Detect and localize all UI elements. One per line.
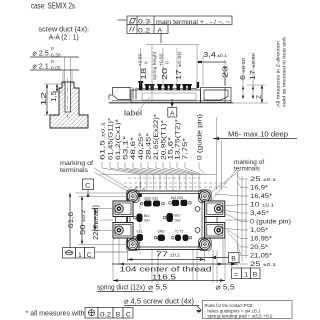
svg-text:-0.05: -0.05	[49, 65, 60, 71]
svg-text:=: =	[234, 272, 238, 279]
svg-text:0: 0	[51, 46, 54, 52]
svg-text:* all measures with: * all measures with	[26, 309, 85, 318]
svg-text:0 (guide pin): 0 (guide pin)	[250, 219, 291, 226]
svg-text:61,5 ±0.1: 61,5 ±0.1	[100, 122, 107, 160]
svg-text:20: 20	[160, 68, 169, 80]
svg-text:+0.50: +0.50	[159, 53, 165, 66]
svg-text:spring height: spring height	[152, 51, 158, 80]
svg-text:0 (guide pin): 0 (guide pin)	[197, 114, 204, 160]
svg-text:⌀ 4,5 screw duct (4x): ⌀ 4,5 screw duct (4x)	[124, 297, 194, 306]
svg-text:C: C	[85, 182, 90, 189]
svg-text:marking of: marking of	[60, 160, 93, 167]
svg-text:3(x2) G22: 3(x2) G22	[144, 197, 158, 201]
svg-text:Cx1: Cx1	[137, 230, 143, 234]
svg-text:Z: Z	[256, 95, 263, 99]
svg-text:-0.30: -0.30	[49, 52, 60, 58]
svg-text:⌀ 2.1: ⌀ 2.1	[32, 62, 48, 71]
svg-text:GND: GND	[158, 230, 166, 234]
svg-text:0.2: 0.2	[100, 311, 111, 318]
svg-text:Rules for the contact PCB:: Rules for the contact PCB:	[205, 303, 254, 309]
svg-text:B: B	[253, 272, 258, 279]
svg-text:13,75(T2)*: 13,75(T2)*	[175, 118, 182, 160]
svg-text:1: 1	[78, 252, 82, 259]
svg-text:- holes guidepins = ⌀4 ±0.1: - holes guidepins = ⌀4 ±0.1	[205, 308, 261, 314]
svg-text:25 ±0.1: 25 ±0.1	[250, 176, 276, 183]
svg-text:48,6*: 48,6*	[130, 136, 137, 160]
svg-text:C: C	[87, 252, 92, 259]
svg-text:1,5: 1,5	[49, 91, 58, 102]
svg-text:M6- max.10 deep: M6- max.10 deep	[228, 130, 288, 139]
svg-text:16,95*: 16,95*	[250, 236, 272, 243]
svg-text:53,1*: 53,1*	[123, 135, 130, 160]
svg-text:20,95(T1)*: 20,95(T1)*	[161, 119, 168, 160]
svg-text:1,05*: 1,05*	[250, 227, 268, 234]
svg-text:±0.2: ±0.2	[170, 253, 180, 259]
svg-text:±0.1: ±0.1	[217, 53, 227, 59]
svg-text:12: 12	[39, 92, 48, 106]
svg-text:⌀ 5,5: ⌀ 5,5	[148, 283, 167, 292]
svg-text:main terminal + , - / ~, ~: main terminal + , - / ~, ~	[156, 19, 230, 26]
svg-text:spring duct (12x): spring duct (12x)	[97, 283, 145, 292]
svg-text:22(thread): 22(thread)	[91, 205, 100, 240]
svg-text:label: label	[124, 109, 142, 118]
svg-text:0.3: 0.3	[138, 19, 150, 26]
svg-text:case: SEMIX 2s: case: SEMIX 2s	[31, 2, 75, 11]
svg-text:16,45*: 16,45*	[250, 193, 272, 200]
svg-text:21,05*: 21,05*	[250, 253, 272, 260]
svg-text:All measures in Z-direction: All measures in Z-direction	[276, 41, 282, 107]
svg-text:28,45*: 28,45*	[146, 132, 153, 160]
svg-text:10 ±0.1: 10 ±0.1	[250, 202, 274, 209]
svg-text:⌀ 2.5: ⌀ 2.5	[32, 48, 48, 57]
svg-text:1: 1	[244, 272, 248, 279]
svg-text:18: 18	[139, 68, 148, 80]
svg-text:25 ±0.1: 25 ±0.1	[250, 261, 276, 268]
svg-text:T1 T2: T1 T2	[175, 230, 183, 234]
svg-text:8x2 G32: 8x2 G32	[171, 196, 183, 200]
svg-text:40,25*: 40,25*	[138, 132, 145, 160]
svg-text:21,65(Ex22)*: 21,65(Ex22)*	[153, 113, 160, 160]
svg-text:- spring landing pad = ⌀3,5 +0: - spring landing pad = ⌀3,5 +0.2	[205, 314, 273, 320]
svg-text:B: B	[231, 256, 236, 263]
svg-text:3,4: 3,4	[203, 50, 216, 59]
svg-text:16,9*: 16,9*	[250, 185, 268, 192]
svg-text:116,5: 116,5	[152, 272, 176, 281]
svg-text:Bx1: Bx1	[144, 214, 150, 218]
svg-text:61,45(G11)*: 61,45(G11)*	[108, 117, 115, 160]
svg-text:61,2(Cx1)*: 61,2(Cx1)*	[115, 118, 122, 160]
svg-text:3,45*: 3,45*	[250, 210, 269, 217]
svg-text:A: A	[158, 27, 163, 34]
svg-text:+2.50: +2.50	[138, 53, 144, 66]
svg-text:0.2: 0.2	[138, 27, 150, 34]
svg-text:valid as mounted to heat sink: valid as mounted to heat sink	[282, 36, 288, 107]
svg-text:15,6*: 15,6*	[168, 136, 175, 160]
svg-text:A: A	[170, 110, 175, 117]
svg-text:20,5*: 20,5*	[250, 244, 268, 251]
svg-text:⌀ 5,5: ⌀ 5,5	[216, 283, 235, 292]
svg-text:A-A (2 : 1): A-A (2 : 1)	[49, 33, 79, 42]
svg-text:Gx1: Gx1	[144, 219, 150, 223]
svg-text:0: 0	[144, 61, 150, 64]
svg-text:B: B	[116, 311, 121, 318]
svg-text:Bx2: Bx2	[175, 214, 181, 218]
svg-text:terminals: terminals	[60, 167, 89, 174]
svg-text:61,6: 61,6	[66, 212, 75, 228]
svg-text:0: 0	[51, 59, 54, 65]
svg-text:77: 77	[156, 250, 168, 259]
svg-text:Gx2: Gx2	[175, 219, 181, 223]
svg-text:7,75*: 7,75*	[182, 137, 189, 160]
svg-text:C: C	[126, 311, 131, 318]
svg-text:0: 0	[165, 61, 171, 64]
